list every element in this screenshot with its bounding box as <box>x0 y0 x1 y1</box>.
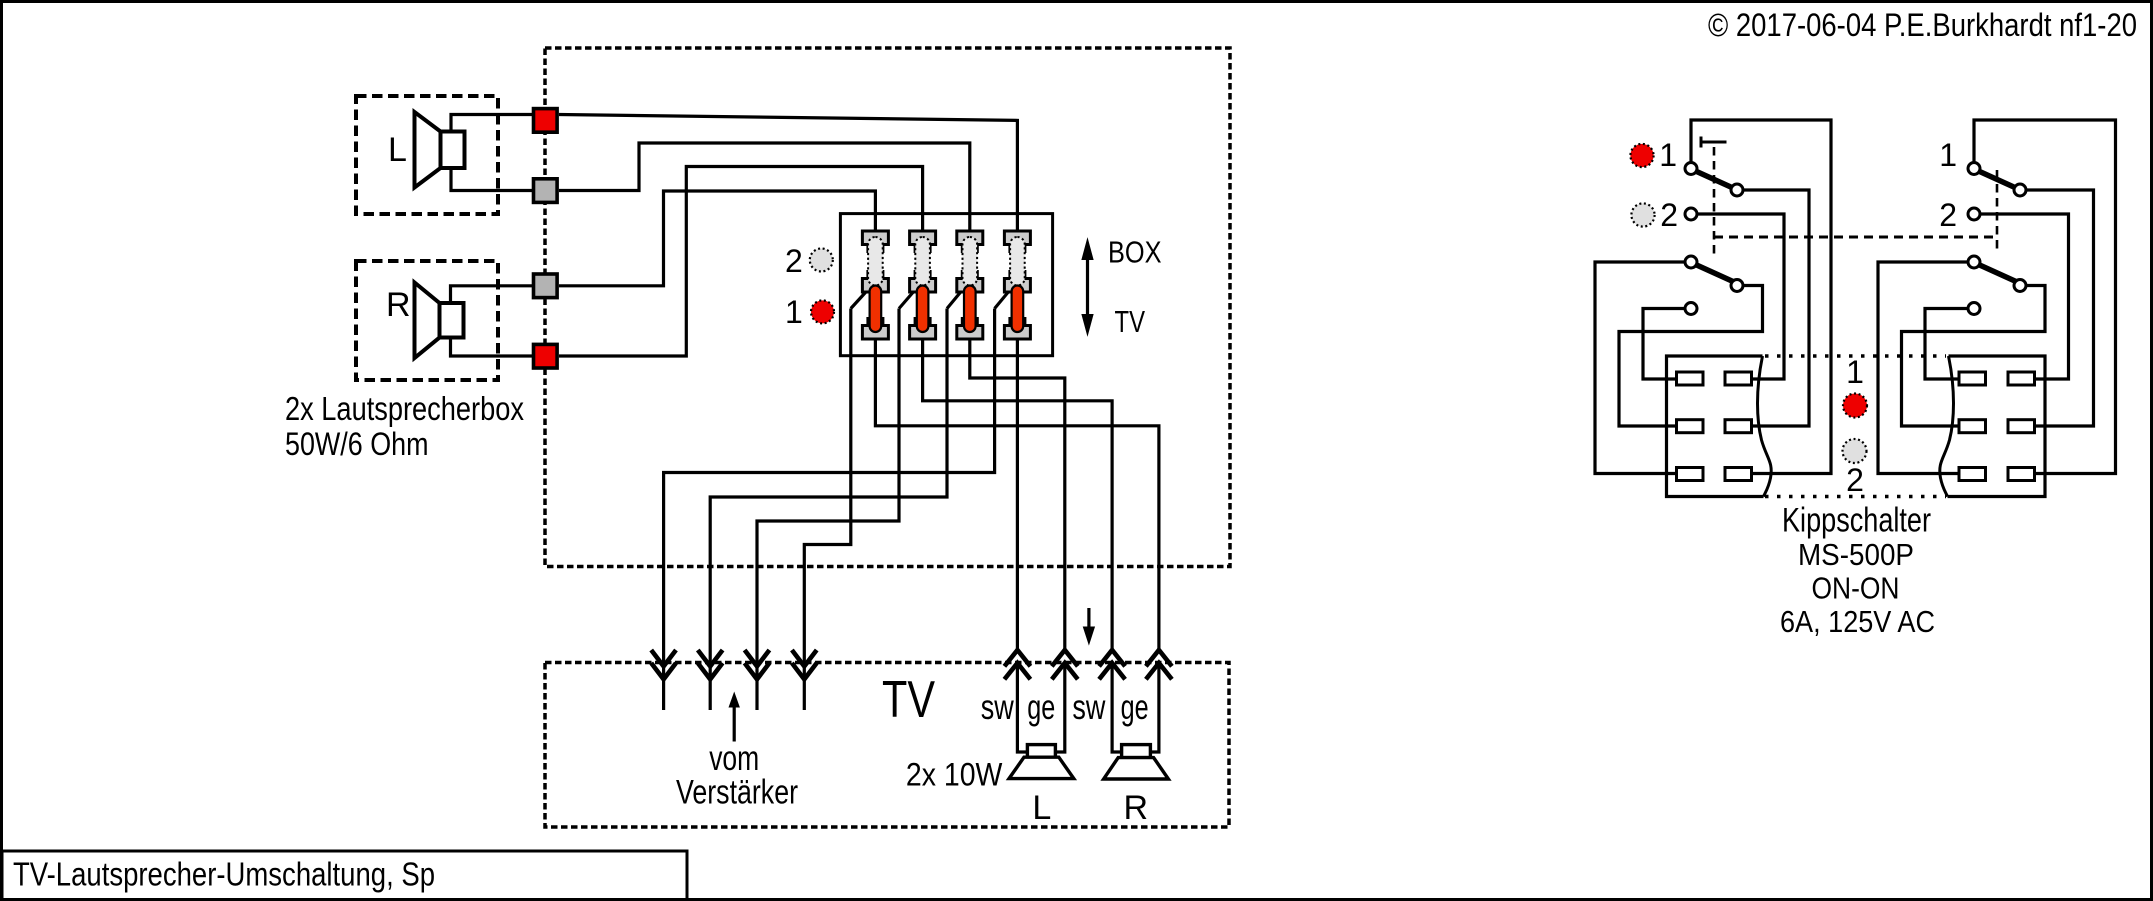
wire D: connector X4 to switch S1b top <box>559 167 923 357</box>
connector X2 (gray) <box>534 179 558 203</box>
svg-text:50W/6 Ohm: 50W/6 Ohm <box>285 426 429 462</box>
switch S1d diagonal wire from middle terminal <box>995 287 1013 309</box>
wire: S1d bottom to TV sw (left) <box>1016 339 1019 650</box>
switch S1a terminals <box>868 245 883 252</box>
svg-text:sw: sw <box>1072 688 1106 727</box>
Kippschalter SW-B: pole2 common wire <box>1878 262 1968 474</box>
Kippschalter SW-B: pole1 lever and contacts <box>1979 171 2017 188</box>
svg-text:BOX: BOX <box>1108 235 1162 270</box>
wire: speaker L minus to connector X2 <box>451 168 534 191</box>
connector arrows out of TV (speaker line x=1112.1) <box>1099 650 1125 666</box>
switch block S1 (4x slide switch) <box>840 214 1052 356</box>
connector X1 (red) <box>534 109 558 133</box>
svg-text:2: 2 <box>1660 197 1678 233</box>
BOX/TV direction arrow <box>1086 254 1089 320</box>
Kippschalter SW-A: pole1 lever and contacts <box>1696 171 1734 188</box>
connector arrows into TV (amplifier feed x=757) <box>745 650 770 666</box>
svg-text:6A, 125V AC: 6A, 125V AC <box>1780 604 1935 639</box>
speaker box L (dashed) <box>356 96 498 214</box>
wire C: connector X3 to switch S1a top <box>559 191 875 286</box>
svg-text:Verstärker: Verstärker <box>676 774 798 812</box>
svg-text:TV: TV <box>1115 304 1146 339</box>
svg-text:© 2017-06-04 P.E.Burkhardt nf1: © 2017-06-04 P.E.Burkhardt nf1-20 <box>1708 7 2137 43</box>
Kippschalter SW-B: frame wire common1 <box>1974 120 2116 474</box>
wire: speaker R minus to connector X4 <box>451 338 535 357</box>
vom Verstaerker arrow <box>733 704 736 742</box>
switch S1d terminals <box>1010 245 1025 252</box>
box boundary: Lautsprecherbox cable duct (large dashed enclosure) <box>545 48 1230 567</box>
Kippschalter SW-B: actuator link dashed <box>1996 170 1999 250</box>
connector arrows out of TV (speaker line x=1064.8) <box>1052 650 1078 666</box>
wire: S1d middle to amplifier input 1 <box>664 309 995 711</box>
speaker L (Lautsprecherbox links) <box>415 112 441 188</box>
switch S1b slider position 1 (active, red) <box>917 286 929 333</box>
connector arrows out of TV (speaker line x=1158.9) <box>1146 650 1172 666</box>
switch S1c diagonal wire from middle terminal <box>947 287 965 309</box>
Kippschalter SW-B: pins row 3 <box>1959 468 1986 481</box>
svg-text:MS-500P: MS-500P <box>1798 537 1914 572</box>
Kippschalter SW-B: pole1 throw2 wire <box>1980 214 2069 379</box>
Kippschalter SW-A: pole2 common wire <box>1595 262 1685 474</box>
wire: S1c middle to amplifier input 2 <box>710 309 947 711</box>
Kippschalter SW-A: pole2 throw1 wire <box>1619 286 1763 427</box>
Kippschalter SW-B: pole2 lever and contacts <box>1979 265 2017 282</box>
svg-text:2x Lautsprecherbox: 2x Lautsprecherbox <box>285 390 524 427</box>
connector arrows out of TV (speaker line x=1017.4) <box>1004 650 1030 666</box>
Kippschalter SW-B: pins row 1 <box>1959 372 1986 385</box>
switch S1b diagonal wire from middle terminal <box>899 287 918 309</box>
label 2 with gray dot (between pin boxes) <box>1843 439 1867 463</box>
switch S1b terminals <box>915 245 930 252</box>
Kippschalter SW-A: pin box (bottom view) <box>1667 356 1764 497</box>
wire: speaker L plus to connector X1 <box>451 115 534 132</box>
wire: S1c bottom to TV ge (left) <box>970 339 1065 650</box>
Kippschalter SW-A: pins row 3 <box>1677 468 1704 481</box>
svg-text:2x 10W: 2x 10W <box>906 757 1003 793</box>
svg-text:Kippschalter: Kippschalter <box>1782 502 1931 540</box>
connector X4 (red) <box>534 344 558 368</box>
Kippschalter SW-A: pole1 throw2 wire <box>1697 214 1784 379</box>
wire B: connector X2 to switch S1c top <box>559 143 970 231</box>
svg-text:R: R <box>1124 789 1149 827</box>
Kippschalter SW-B: pole1 throw1 wire <box>2026 190 2094 426</box>
connector arrows into TV (amplifier feed x=804.3) <box>792 650 817 666</box>
Kippschalter SW-A: toggle actuator symbol <box>1701 137 1727 148</box>
connector arrows into TV (amplifier feed x=710.2) <box>698 650 723 666</box>
svg-text:ON-ON: ON-ON <box>1812 571 1900 606</box>
wire jogs to TV speaker L <box>1017 666 1027 752</box>
wire jogs to TV speaker R <box>1112 666 1122 752</box>
TV speaker R (10W) <box>1122 745 1151 758</box>
wire: S1a bottom to TV ge (right) <box>875 339 1159 650</box>
wire: speaker R plus to connector X3 <box>451 286 535 303</box>
Kippschalter SW-A: pole2 lever and contacts <box>1696 265 1734 282</box>
Kippschalter SW-A: pins row 2 <box>1677 420 1704 433</box>
svg-text:2: 2 <box>785 243 803 279</box>
wire A: connector X1 to switch S1d top <box>559 115 1017 232</box>
mechanical link dashed line between poles/units <box>1714 236 1997 239</box>
speaker R (Lautsprecherbox rechts) <box>415 283 440 359</box>
switch S1d slider position 2 (inactive) <box>1010 237 1025 286</box>
svg-text:TV: TV <box>882 671 935 729</box>
svg-text:1: 1 <box>1939 137 1957 173</box>
wire: S1a middle to amplifier input 4 <box>804 309 851 711</box>
Kippschalter SW-A: frame wire common1 <box>1691 120 1831 474</box>
svg-text:sw: sw <box>981 688 1015 727</box>
svg-text:vom: vom <box>709 739 759 778</box>
small down arrow into TV speaker lines <box>1087 608 1090 629</box>
svg-text:R: R <box>386 286 411 324</box>
svg-text:L: L <box>388 131 407 169</box>
TV speaker L (10W) <box>1027 745 1055 758</box>
svg-text:TV-Lautsprecher-Umschaltung, S: TV-Lautsprecher-Umschaltung, Sp <box>13 856 435 893</box>
svg-text:1: 1 <box>1659 137 1677 173</box>
switch S1a diagonal wire from middle terminal <box>851 287 871 309</box>
switch S1c terminals <box>962 245 977 252</box>
Kippschalter SW-A: pins row 1 <box>1677 372 1704 385</box>
switch S1a slider position 1 (active, red) <box>870 286 882 333</box>
title block <box>2 851 687 898</box>
svg-text:2: 2 <box>1939 197 1957 233</box>
svg-text:L: L <box>1032 789 1051 827</box>
svg-text:ge: ge <box>1027 688 1055 727</box>
wire: S1b bottom to TV sw (right) <box>923 339 1113 650</box>
switch S1c slider position 1 (active, red) <box>964 286 976 333</box>
svg-text:ge: ge <box>1121 688 1149 727</box>
Kippschalter SW-B: pins row 2 <box>1959 420 1986 433</box>
connector arrows into TV (amplifier feed x=663.6) <box>651 650 676 666</box>
connector X3 (gray) <box>534 274 558 298</box>
speaker box R (dashed) <box>356 261 498 380</box>
dotted alignment lines between pin boxes <box>1765 354 1946 358</box>
switch S1d slider position 1 (active, red) <box>1012 286 1024 333</box>
Kippschalter SW-B: pin box (bottom view) <box>1948 356 2046 497</box>
switch S1a slider position 2 (inactive) <box>868 237 883 286</box>
Kippschalter SW-A: pole2 throw2 wire <box>1643 309 1685 380</box>
wire: S1b middle to amplifier input 3 <box>757 309 899 711</box>
svg-text:1: 1 <box>785 294 803 330</box>
svg-text:1: 1 <box>1846 354 1864 390</box>
Kippschalter SW-A: pole1 throw1 wire <box>1743 190 1809 426</box>
switch S1b slider position 2 (inactive) <box>915 237 930 286</box>
TV enclosure (dashed box) <box>545 663 1229 828</box>
Kippschalter SW-B: pole2 throw2 wire <box>1925 309 1968 380</box>
Kippschalter SW-B: pole2 throw1 wire <box>1902 286 2046 427</box>
svg-text:2: 2 <box>1846 462 1864 498</box>
switch S1c slider position 2 (inactive) <box>963 237 978 286</box>
